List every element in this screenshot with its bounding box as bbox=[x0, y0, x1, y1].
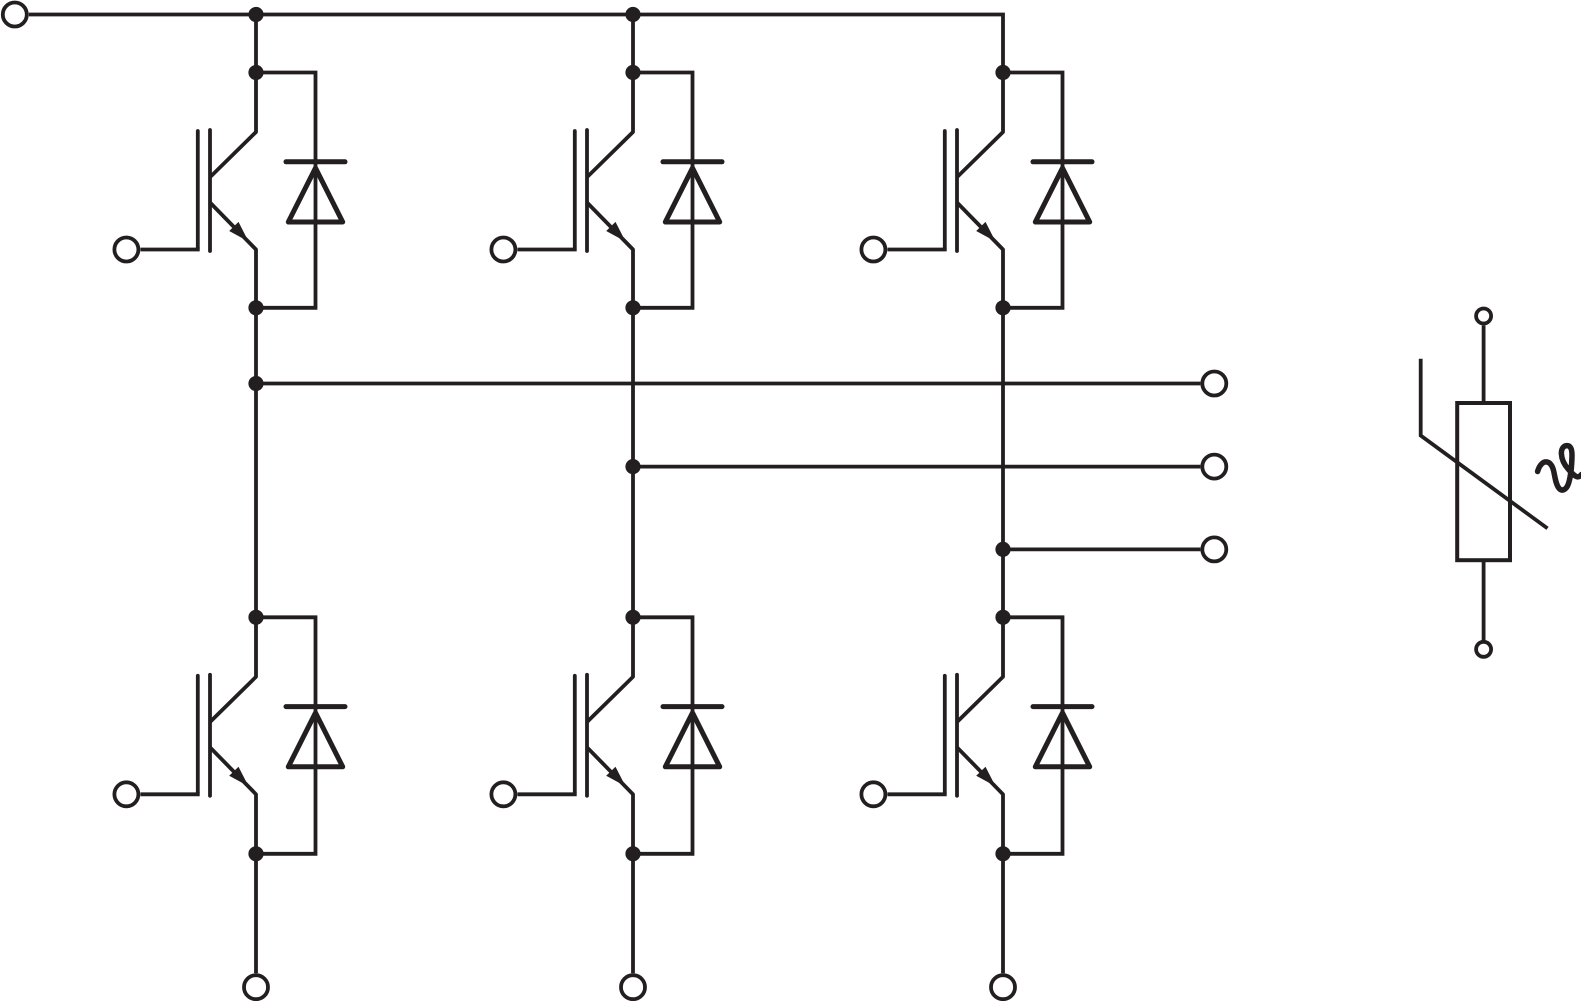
node: emitter junction of Q4 bbox=[625, 846, 640, 861]
node: emitter junction of Q2 bbox=[248, 846, 263, 861]
gate terminal G4 bbox=[491, 782, 515, 806]
terminal: thermistor bottom bbox=[1476, 642, 1491, 657]
transistor Q6 (IGBT) bbox=[888, 617, 1004, 854]
terminal: phase W output bbox=[1202, 537, 1226, 561]
diode D4 (freewheeling, antiparallel to Q4) bbox=[633, 617, 693, 854]
diode D3 (freewheeling, antiparallel to Q3) bbox=[633, 73, 693, 308]
terminal: thermistor top bbox=[1476, 309, 1491, 324]
node: collector junction of Q2 bbox=[248, 610, 263, 625]
thermistor R1 (NTC) body bbox=[1457, 403, 1510, 560]
node: DC+ rail / leg 2 bbox=[625, 7, 640, 22]
emitter arrow of Q6 bbox=[976, 767, 995, 787]
diode D1 (freewheeling, antiparallel to Q1) bbox=[256, 73, 316, 308]
wire: phase U output line bbox=[256, 382, 1200, 386]
terminal: phase V output bbox=[1202, 455, 1226, 479]
wire: thermistor bottom lead bbox=[1482, 560, 1486, 640]
wire: DC+ rail to Q1 collector (leg 1) bbox=[254, 15, 258, 73]
wire: phase W output line bbox=[1003, 548, 1200, 552]
thermistor NTC slash mark bbox=[1421, 359, 1548, 529]
terminal: DC+ input (top left) bbox=[3, 3, 27, 27]
wire: DC+ rail across top, corner down into leg 3 bbox=[29, 15, 1003, 73]
wire: Q2 emitter down to bottom terminal (leg 1) bbox=[254, 854, 258, 974]
node: collector junction of Q6 bbox=[995, 610, 1010, 625]
wire: Q4 emitter down to bottom terminal (leg 2) bbox=[631, 854, 635, 974]
node: collector junction of Q5 bbox=[995, 65, 1010, 80]
emitter arrow of Q2 bbox=[229, 767, 248, 787]
node: collector junction of Q3 bbox=[625, 65, 640, 80]
emitter arrow of Q3 bbox=[606, 222, 625, 242]
gate terminal G6 bbox=[861, 782, 885, 806]
label: temperature symbol theta bbox=[1538, 446, 1581, 490]
diode D5 (freewheeling, antiparallel to Q5) bbox=[1003, 73, 1063, 308]
transistor Q4 (IGBT) bbox=[518, 617, 634, 854]
transistor Q2 (IGBT) bbox=[141, 617, 257, 854]
emitter arrow of Q1 bbox=[229, 222, 248, 242]
wire: phase leg 1 midpoint (Q1 emitter to Q2 collector) bbox=[254, 308, 258, 618]
emitter arrow of Q5 bbox=[976, 222, 995, 242]
wire: thermistor top lead bbox=[1482, 325, 1486, 404]
terminal: phase U output bbox=[1202, 372, 1226, 396]
diode D6 (freewheeling, antiparallel to Q6) bbox=[1003, 617, 1063, 854]
gate terminal G1 bbox=[114, 238, 138, 262]
node: emitter junction of Q3 bbox=[625, 300, 640, 315]
wire: phase V output line bbox=[633, 465, 1200, 469]
terminal: emitter/DC- terminal leg 2 (bottom) bbox=[621, 975, 645, 999]
terminal: emitter/DC- terminal leg 3 (bottom) bbox=[991, 975, 1015, 999]
node: emitter junction of Q6 bbox=[995, 846, 1010, 861]
wire: Q6 emitter down to bottom terminal (leg 3) bbox=[1001, 854, 1005, 974]
gate terminal G5 bbox=[861, 238, 885, 262]
node: emitter junction of Q1 bbox=[248, 300, 263, 315]
node: collector junction of Q4 bbox=[625, 610, 640, 625]
gate terminal G2 bbox=[114, 782, 138, 806]
gate terminal G3 bbox=[491, 238, 515, 262]
node: emitter junction of Q5 bbox=[995, 300, 1010, 315]
transistor Q1 (IGBT) bbox=[141, 73, 257, 308]
emitter arrow of Q4 bbox=[606, 767, 625, 787]
transistor Q3 (IGBT) bbox=[518, 73, 634, 308]
diode D2 (freewheeling, antiparallel to Q2) bbox=[256, 617, 316, 854]
wire: phase leg 2 midpoint (Q3 emitter to Q4 collector) bbox=[631, 308, 635, 618]
wire: phase leg 3 midpoint (Q5 emitter to Q6 collector) bbox=[1001, 308, 1005, 618]
node: DC+ rail / leg 1 bbox=[248, 7, 263, 22]
node: collector junction of Q1 bbox=[248, 65, 263, 80]
terminal: emitter/DC- terminal leg 1 (bottom) bbox=[244, 975, 268, 999]
node: phase V tap on leg 2 bbox=[625, 459, 640, 474]
wire: DC+ rail to Q3 collector (leg 2) bbox=[631, 15, 635, 73]
node: phase W tap on leg 3 bbox=[995, 542, 1010, 557]
node: phase U tap on leg 1 bbox=[248, 376, 263, 391]
transistor Q5 (IGBT) bbox=[888, 73, 1004, 308]
